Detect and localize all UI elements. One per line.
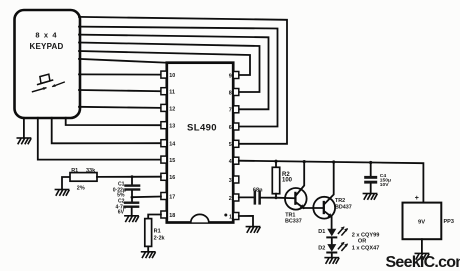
transistor TR1 BC337 [285, 162, 307, 225]
node rail TR1 collector [303, 160, 306, 163]
ground (D2) [325, 258, 339, 264]
battery PP3 9V [403, 195, 454, 239]
pin 3 [229, 176, 239, 184]
pin 6 [229, 123, 239, 131]
keypad switch symbol [33, 74, 65, 92]
svg-text:D2: D2 [318, 245, 325, 251]
svg-text:R1: R1 [71, 168, 78, 174]
pin 1 [229, 213, 239, 221]
wire keypad col2 to pin 6 loop [79, 27, 278, 127]
svg-text:1 x CQX47: 1 x CQX47 [352, 245, 380, 251]
wire C2 to ground [131, 208, 133, 216]
wire C1 to C2 with pin 17 tap [131, 191, 133, 202]
pin 4 [229, 157, 239, 165]
wire TR2 emitter to D1 [331, 217, 333, 229]
capacitor C2 4.7u [116, 199, 140, 216]
svg-text:R1: R1 [154, 229, 161, 235]
wire keypad row to pin 13 [66, 118, 161, 125]
pin 9 [229, 72, 239, 80]
wire keypad row to pin 14 [52, 118, 161, 144]
svg-text:9: 9 [229, 73, 232, 79]
pin 12 [161, 104, 175, 112]
svg-text:BC337: BC337 [285, 218, 302, 224]
ground (R1) [55, 190, 69, 196]
pin 13 [161, 122, 175, 130]
ground (C2) [125, 216, 138, 222]
node R2 bottom junction [275, 196, 278, 199]
node rail R2 [274, 160, 277, 163]
pin 15 [161, 156, 175, 164]
svg-text:+: + [415, 195, 419, 202]
wire keypad col5 to pin 9 loop [79, 51, 250, 75]
svg-text:10: 10 [169, 73, 175, 79]
svg-text:KEYPAD: KEYPAD [30, 42, 64, 51]
wire R1 left lead to ground [62, 177, 70, 190]
pin 14 [161, 140, 175, 148]
wire keypad to pin 12 [79, 107, 161, 108]
svg-text:14: 14 [169, 142, 175, 148]
wire keypad col1 to pin 5 loop [79, 17, 287, 144]
svg-text:16: 16 [169, 175, 175, 181]
capacitor C4 150u [364, 163, 391, 194]
wire junction to C1 [131, 177, 133, 185]
wire keypad col3 to pin 7 loop [79, 35, 269, 110]
svg-text:2: 2 [229, 196, 232, 202]
wire pin 18 to R 2.2k [148, 215, 161, 219]
svg-text:9V: 9V [418, 220, 425, 226]
resistor R2 100 [272, 161, 292, 197]
wire R1 to pin 16 [97, 176, 161, 178]
pin 18 [161, 211, 175, 219]
node rail TR2 collector [332, 160, 335, 163]
wire pin 1 to ground [239, 216, 253, 227]
wire keypad col6 to IC corner [79, 59, 167, 63]
wire D1 to D2 [331, 237, 333, 244]
ground (C4) [363, 194, 377, 200]
svg-text:13: 13 [169, 124, 175, 130]
svg-text:33k: 33k [86, 168, 96, 174]
pin 17 [161, 193, 175, 201]
svg-text:SL490: SL490 [187, 123, 217, 134]
IC U1 SL490 body [167, 63, 233, 223]
svg-text:BD437: BD437 [335, 204, 352, 210]
pin 11 [161, 88, 175, 96]
svg-text:100: 100 [282, 178, 293, 184]
wire TR1 emitter to TR2 base [304, 207, 324, 209]
ground (R 2.2k) [142, 252, 156, 258]
svg-text:6: 6 [229, 125, 232, 131]
svg-text:5%: 5% [117, 192, 125, 198]
svg-text:7: 7 [229, 108, 232, 114]
wire keypad ground stub [23, 118, 25, 138]
wire supply rail pin 4 to battery [239, 161, 424, 203]
svg-text:TR2: TR2 [335, 198, 345, 204]
svg-text:SeekIC.com: SeekIC.com [386, 254, 460, 271]
wire keypad to pin 11 [79, 90, 161, 91]
svg-text:4: 4 [229, 159, 232, 165]
wire keypad row to pin 15 [38, 118, 161, 160]
pin 8 [229, 89, 239, 97]
wire keypad col4 to pin 8 loop [79, 43, 260, 93]
LED D1 [318, 226, 348, 237]
svg-text:2%: 2% [77, 185, 85, 191]
wire D2 to ground [331, 253, 333, 258]
wire keypad to pin 10 [79, 73, 161, 75]
svg-text:5: 5 [229, 142, 232, 148]
svg-text:PP3: PP3 [444, 219, 454, 225]
resistor R1 2.2k [145, 219, 166, 247]
pin 16 [161, 173, 175, 181]
label LED types [352, 233, 380, 252]
svg-text:OR: OR [358, 239, 366, 245]
ground (battery) [415, 253, 429, 259]
wire R 2.2k to ground [147, 246, 149, 251]
svg-text:2·2k: 2·2k [154, 235, 166, 241]
svg-text:10V: 10V [380, 182, 389, 188]
pin 5 [229, 140, 239, 148]
svg-text:1: 1 [229, 214, 232, 220]
LED D2 [318, 242, 348, 253]
svg-text:68n: 68n [253, 188, 263, 194]
wire C3 to TR1 base [261, 197, 294, 200]
wire junction to pin 17 [132, 196, 161, 199]
wire pin 2 to C3 [239, 196, 254, 198]
svg-text:18: 18 [169, 213, 175, 219]
svg-text:6V: 6V [118, 210, 125, 216]
keypad S1 8x4 [15, 10, 81, 118]
svg-text:8: 8 [229, 90, 232, 96]
capacitor C1 0.22u [113, 182, 141, 199]
svg-text:12: 12 [169, 106, 175, 112]
svg-text:8 x 4: 8 x 4 [35, 31, 57, 40]
ground (pin 1) [246, 227, 260, 233]
capacitor C3 68n [253, 188, 263, 205]
resistor R1 33k [70, 168, 97, 191]
svg-text:3: 3 [229, 178, 232, 184]
wire battery to ground [421, 239, 423, 253]
transistor TR2 BD437 [313, 162, 351, 219]
pin 10 [161, 71, 175, 79]
ground (keypad) [17, 138, 31, 144]
pin 2 [229, 194, 239, 202]
svg-text:17: 17 [169, 194, 175, 200]
svg-text:D1: D1 [318, 229, 325, 235]
node junction C1 top [131, 175, 134, 178]
svg-text:11: 11 [169, 90, 175, 96]
pin 7 [229, 106, 239, 114]
node rail C4 [369, 161, 372, 164]
svg-text:15: 15 [169, 158, 175, 164]
